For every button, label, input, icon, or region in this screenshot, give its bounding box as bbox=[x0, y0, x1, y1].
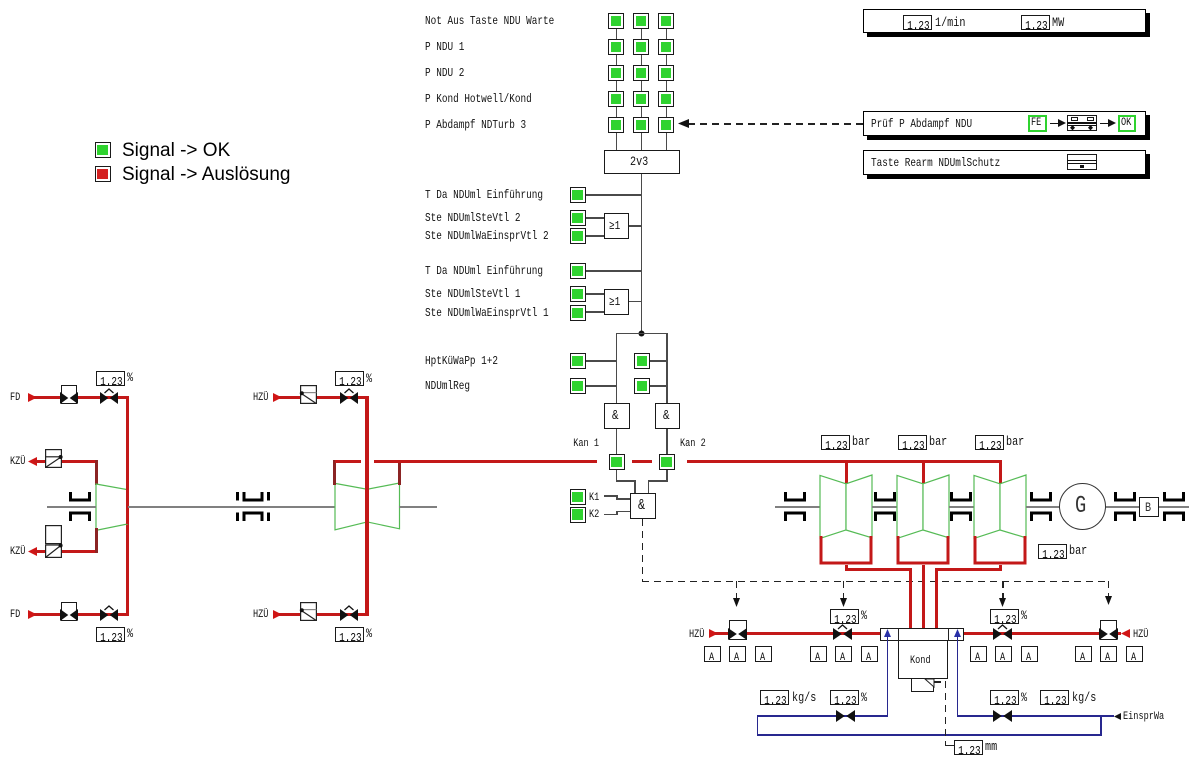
pipe NDUml vertical overlay bbox=[365, 487, 369, 525]
dashed drop arrow 1 bbox=[736, 581, 738, 600]
wire OR1 output bbox=[629, 301, 641, 303]
value box level mm bbox=[954, 740, 983, 755]
spraywater pipe right vertical bbox=[957, 636, 958, 716]
wire SteVtl2 to gate bbox=[586, 217, 605, 219]
value box % spray valve right bbox=[990, 690, 1019, 705]
indicator row5 col3 bbox=[658, 117, 674, 133]
indicator K2 bbox=[570, 507, 586, 523]
pipe stub to turbine1 top bbox=[95, 460, 98, 485]
exhaust duct LP1 bbox=[845, 565, 848, 571]
pipe stub turbine2 right bbox=[398, 460, 401, 485]
unit % HZUe top bbox=[366, 373, 372, 385]
value box bar exhaust bbox=[1038, 544, 1067, 559]
pipe inlet LP1 bbox=[845, 460, 848, 485]
label Kan 2 bbox=[680, 438, 706, 450]
pipe FD bottom bbox=[34, 613, 129, 616]
button OK bbox=[1118, 115, 1136, 132]
wire left branch bbox=[616, 333, 618, 404]
valve spray left control bbox=[833, 624, 852, 640]
pipe HZUe top bbox=[279, 396, 369, 399]
condenser dome bbox=[880, 628, 965, 641]
label HZUe top bbox=[253, 392, 268, 404]
dashed drop arrow 3 bbox=[1002, 581, 1004, 600]
value box bar LP2 bbox=[898, 435, 927, 450]
pipe main NDUml segment B bbox=[374, 460, 597, 463]
valve HZUe bottom control bbox=[340, 605, 358, 621]
label HptKueWaPp 1+2 bbox=[425, 355, 498, 367]
label HZUe kond right bbox=[1133, 629, 1148, 641]
dashed trip line across bbox=[642, 581, 1109, 583]
pipe main NDUml segment C bbox=[687, 460, 1002, 463]
pipe KZUe bottom left bbox=[34, 550, 45, 553]
level tap triangle bbox=[925, 679, 934, 687]
pipe NDUml vertical bbox=[365, 396, 369, 616]
exhaust hood LP1 bbox=[818, 536, 874, 565]
indicator HptKueWaPp R bbox=[634, 353, 650, 369]
analog box A3 bbox=[755, 646, 772, 662]
indicator Ste NDUmlSteVtl 2 bbox=[570, 210, 586, 226]
spraywater arrow up right bbox=[954, 629, 961, 637]
value box power bbox=[1021, 15, 1050, 30]
indicator T Da NDUml 2 bbox=[570, 187, 586, 203]
generator G bbox=[1059, 483, 1106, 530]
label Taste Rearm NDUmlSchutz bbox=[871, 157, 1000, 169]
gate OR 1 bbox=[604, 289, 629, 315]
wire trunk 2v3 output bbox=[641, 174, 643, 334]
valve FD bottom stop bbox=[61, 602, 77, 621]
pipe spray left bbox=[715, 632, 880, 635]
rearm key symbol bbox=[1067, 154, 1097, 170]
panel Pruef P Abdampf NDU bbox=[863, 111, 1146, 136]
value box spray left bbox=[830, 609, 859, 624]
pipe main NDUml segment A bbox=[335, 460, 361, 463]
pipe inlet LP2 bbox=[922, 460, 925, 485]
pipe KZUe top right bbox=[62, 460, 98, 463]
wire HptKueWa L1 bbox=[586, 360, 617, 362]
value box speed bbox=[903, 15, 932, 30]
indicator row3 col3 bbox=[658, 65, 674, 81]
arrow KZUe top bbox=[28, 457, 37, 466]
valve spray right motor bbox=[1100, 620, 1118, 640]
indicator Kan 2 bbox=[659, 454, 675, 470]
wire Kan2 to AND3 bbox=[666, 470, 668, 481]
condenser hotwell bbox=[911, 679, 935, 692]
valve KZUe top bbox=[45, 449, 62, 468]
spraywater valve left bbox=[836, 710, 855, 722]
gate OR 2 bbox=[604, 213, 629, 239]
wire AND2 to Kan2 bbox=[666, 429, 668, 454]
indicator row1 col1 bbox=[608, 13, 624, 29]
unit % spray left bbox=[861, 610, 867, 622]
shaft right segment C bbox=[949, 506, 974, 508]
valve KZUe bottom bbox=[45, 525, 62, 558]
pipe FD top bbox=[34, 396, 129, 399]
legend indicator Ausloesung bbox=[95, 166, 111, 182]
indicator row5 col2 bbox=[633, 117, 649, 133]
arrow EinsprWa bbox=[1114, 713, 1121, 720]
legend label OK bbox=[122, 140, 230, 161]
indicator row4 col2 bbox=[633, 91, 649, 107]
legend indicator OK bbox=[95, 142, 111, 158]
exhaust hood LP2 bbox=[895, 536, 951, 565]
wire OR2 output bbox=[629, 225, 641, 227]
indicator row2 col3 bbox=[658, 39, 674, 55]
label P NDU 2 bbox=[425, 67, 464, 79]
dashed wire Pruef to row5 bbox=[688, 123, 863, 125]
indicator row1 col2 bbox=[633, 13, 649, 29]
valve FD top stop bbox=[61, 385, 77, 404]
value box bar LP1 bbox=[821, 435, 850, 450]
arrow FD top bbox=[28, 393, 37, 402]
wire WaEinsprVtl1 to gate bbox=[586, 311, 605, 313]
gate AND main bbox=[630, 493, 656, 519]
wire NDUmlReg L bbox=[586, 385, 617, 387]
wire column 2 bbox=[641, 29, 643, 39]
arrow HZUe kond right bbox=[1121, 629, 1130, 638]
turbine IP left half bbox=[335, 483, 400, 530]
indicator NDUmlReg R bbox=[634, 378, 650, 394]
button FE bbox=[1028, 115, 1047, 132]
pipe stub turbine2 left bbox=[333, 460, 336, 485]
turbine HP bbox=[96, 484, 128, 531]
analog box A1 bbox=[704, 646, 721, 662]
unit bar LP1 bbox=[852, 436, 870, 448]
wire Kan1 to AND3 bbox=[616, 470, 618, 481]
pipe KZUe bottom right bbox=[62, 550, 98, 553]
shaft right segment F bbox=[1159, 506, 1189, 508]
panel Taste Rearm NDUmlSchutz bbox=[863, 150, 1146, 175]
device test symbol bbox=[1067, 115, 1097, 131]
pipe FD vertical bbox=[126, 396, 129, 616]
voter 2v3 bbox=[604, 150, 680, 174]
shaft right segment A bbox=[775, 506, 820, 508]
analog box A10 bbox=[1075, 646, 1092, 662]
wire HptKueWa R1 bbox=[650, 360, 667, 362]
value box kgs right bbox=[1040, 690, 1069, 705]
arrow HZUe top bbox=[273, 393, 282, 402]
shaft right segment E bbox=[1106, 506, 1139, 508]
label Pruef P Abdampf NDU bbox=[871, 118, 972, 130]
unit % FD bottom bbox=[127, 628, 133, 640]
analog box A5 bbox=[835, 646, 852, 662]
gate AND Kan2 bbox=[655, 403, 680, 429]
bearing R4 bbox=[1030, 492, 1052, 521]
arrow KZUe bottom bbox=[28, 547, 37, 556]
turbine LP3 bbox=[974, 475, 1026, 539]
label HZUe kond left bbox=[689, 629, 704, 641]
label KZUe top bbox=[10, 456, 25, 468]
wire WaEinsprVtl2 to gate bbox=[586, 235, 605, 237]
shaft left segment A bbox=[47, 506, 97, 508]
indicator row3 col2 bbox=[633, 65, 649, 81]
indicator NDUmlReg L bbox=[570, 378, 586, 394]
bearing left bbox=[69, 492, 91, 521]
valve HZUe top control bbox=[340, 388, 358, 404]
unit bar LP3 bbox=[1006, 436, 1024, 448]
arrow HZUe bottom bbox=[273, 610, 282, 619]
value box % spray valve left bbox=[830, 690, 859, 705]
exciter B bbox=[1139, 497, 1159, 517]
exhaust hood LP3 bbox=[972, 536, 1028, 565]
indicator T Da NDUml 1 bbox=[570, 263, 586, 279]
exhaust duct LP2 bbox=[922, 565, 925, 629]
arrow HZUe kond left bbox=[709, 629, 718, 638]
label Ste NDUmlWaEinsprVtl 1 bbox=[425, 307, 549, 319]
node trunk junction bbox=[638, 330, 645, 337]
unit bar LP2 bbox=[929, 436, 947, 448]
indicator row5 col1 bbox=[608, 117, 624, 133]
label T Da NDUml Einfuehrung (2) bbox=[425, 189, 543, 201]
label FD top bbox=[10, 392, 20, 404]
indicator row4 col3 bbox=[658, 91, 674, 107]
label P Abdampf NDTurb 3 bbox=[425, 119, 526, 131]
indicator row1 col3 bbox=[658, 13, 674, 29]
valve HZUe bottom motor bbox=[300, 602, 317, 621]
indicator row2 col1 bbox=[608, 39, 624, 55]
wire SteVtl1 to gate bbox=[586, 293, 605, 295]
indicator row4 col1 bbox=[608, 91, 624, 107]
unit MW bbox=[1052, 17, 1064, 29]
indicator K1 bbox=[570, 489, 586, 505]
dashed trip line down bbox=[642, 519, 644, 582]
indicator Ste NDUmlWaEinsprVtl 1 bbox=[570, 305, 586, 321]
unit % spray valve left bbox=[861, 692, 867, 704]
wire T Da 1 to trunk bbox=[586, 270, 642, 272]
arrowhead at row5 col3 bbox=[678, 119, 689, 128]
pipe spray right bbox=[964, 632, 1121, 635]
unit bar exhaust bbox=[1069, 545, 1087, 557]
analog box A8 bbox=[995, 646, 1012, 662]
label K1 bbox=[589, 492, 599, 504]
value box HZUe top bbox=[335, 371, 364, 386]
bearing R3 bbox=[950, 492, 972, 521]
shaft right segment B bbox=[872, 506, 897, 508]
dashed drop arrow 2 bbox=[843, 581, 845, 600]
label HZUe bottom bbox=[253, 609, 268, 621]
valve HZUe top motor bbox=[300, 385, 317, 404]
indicator HptKueWaPp L bbox=[570, 353, 586, 369]
unit % FD top bbox=[127, 372, 133, 384]
condenser body Kond bbox=[898, 641, 949, 679]
indicator Ste NDUmlSteVtl 1 bbox=[570, 286, 586, 302]
label NDUmlReg bbox=[425, 380, 470, 392]
indicator row3 col1 bbox=[608, 65, 624, 81]
spraywater valve right bbox=[993, 710, 1012, 722]
pipe HZUe bottom bbox=[279, 613, 369, 616]
dashed level line bbox=[934, 681, 946, 683]
pipe stub to turbine1 bottom bbox=[95, 528, 98, 553]
valve FD top control bbox=[100, 388, 118, 404]
valve spray left motor bbox=[729, 620, 747, 640]
wire column 3 bbox=[666, 29, 668, 39]
bearing R5 bbox=[1114, 492, 1136, 521]
label P Kond Hotwell/Kond bbox=[425, 93, 532, 105]
unit kg/s left bbox=[792, 692, 816, 704]
wire column 1 bbox=[616, 29, 618, 39]
legend label Ausloesung bbox=[122, 164, 290, 185]
valve FD bottom control bbox=[100, 605, 118, 621]
arrow FE to device bbox=[1050, 123, 1059, 125]
analog box A7 bbox=[970, 646, 987, 662]
pipe main NDUml dash bbox=[632, 460, 653, 463]
turbine LP2 bbox=[897, 475, 949, 539]
label KZUe bottom bbox=[10, 546, 25, 558]
spraywater pipe left horizontal bbox=[757, 715, 888, 716]
shaft left segment B bbox=[128, 506, 336, 508]
value box HZUe bottom bbox=[335, 627, 364, 642]
pipe inlet LP3 bbox=[999, 460, 1002, 485]
analog box A9 bbox=[1021, 646, 1038, 662]
label Not Aus Taste NDU Warte bbox=[425, 15, 554, 27]
shaft right segment D bbox=[1026, 506, 1060, 508]
dashed drop arrow 4 bbox=[1108, 581, 1110, 598]
label FD bottom bbox=[10, 609, 20, 621]
arrow device to OK bbox=[1100, 123, 1109, 125]
value box spray right bbox=[990, 609, 1019, 624]
label EinsprWa bbox=[1123, 711, 1164, 723]
label Ste NDUmlWaEinsprVtl 2 bbox=[425, 230, 549, 242]
analog box A12 bbox=[1126, 646, 1143, 662]
analog box A4 bbox=[810, 646, 827, 662]
pipe KZUe top left bbox=[34, 460, 45, 463]
exhaust duct LP3 bbox=[999, 565, 1002, 571]
indicator Kan 1 bbox=[609, 454, 625, 470]
label T Da NDUml Einfuehrung (1) bbox=[425, 265, 543, 277]
analog box A11 bbox=[1100, 646, 1117, 662]
value box kgs left bbox=[760, 690, 789, 705]
arrow FD bottom bbox=[28, 610, 37, 619]
unit mm bbox=[985, 741, 997, 753]
label Ste NDUmlSteVtl 1 bbox=[425, 288, 520, 300]
unit 1/min bbox=[935, 17, 965, 29]
spraywater pipe left down bbox=[757, 715, 758, 735]
label Kan 1 bbox=[573, 438, 599, 450]
coupling mid bbox=[236, 492, 270, 521]
analog box A2 bbox=[729, 646, 746, 662]
gate AND Kan1 bbox=[604, 403, 630, 429]
spraywater arrow up left bbox=[884, 629, 891, 637]
wire NDUmlReg R bbox=[650, 385, 667, 387]
value box FD bottom bbox=[96, 627, 125, 642]
pipe FD vertical overlay bbox=[126, 488, 129, 524]
shaft left segment C bbox=[399, 506, 437, 508]
valve spray right control bbox=[993, 624, 1012, 640]
unit % spray valve right bbox=[1021, 692, 1027, 704]
value box FD top bbox=[96, 371, 125, 386]
bearing R1 bbox=[784, 492, 806, 521]
spraywater pipe left vertical bbox=[887, 636, 888, 716]
turbine LP1 bbox=[820, 475, 872, 539]
unit kg/s right bbox=[1072, 692, 1096, 704]
bearing R2 bbox=[874, 492, 896, 521]
bearing R6 bbox=[1163, 492, 1185, 521]
label P NDU 1 bbox=[425, 41, 464, 53]
spraywater pipe right up bbox=[1100, 715, 1101, 735]
label Ste NDUmlSteVtl 2 bbox=[425, 212, 520, 224]
value box bar LP3 bbox=[975, 435, 1004, 450]
analog box A6 bbox=[861, 646, 878, 662]
wire K2 to AND3 bbox=[604, 514, 618, 516]
panel speed/power bbox=[863, 9, 1146, 33]
spraywater pipe bottom bbox=[757, 734, 1102, 735]
spraywater pipe right horizontal bbox=[957, 715, 1114, 716]
label K2 bbox=[589, 509, 599, 521]
wire K1 to AND3 bbox=[604, 495, 618, 497]
unit % HZUe bottom bbox=[366, 628, 372, 640]
indicator row2 col2 bbox=[633, 39, 649, 55]
unit % spray right bbox=[1021, 610, 1027, 622]
wire AND1 to Kan1 bbox=[616, 429, 618, 454]
wire right branch bbox=[666, 333, 668, 404]
indicator Ste NDUmlWaEinsprVtl 2 bbox=[570, 228, 586, 244]
wire T Da 2 to trunk bbox=[586, 194, 642, 196]
wire split bar bbox=[616, 333, 668, 335]
